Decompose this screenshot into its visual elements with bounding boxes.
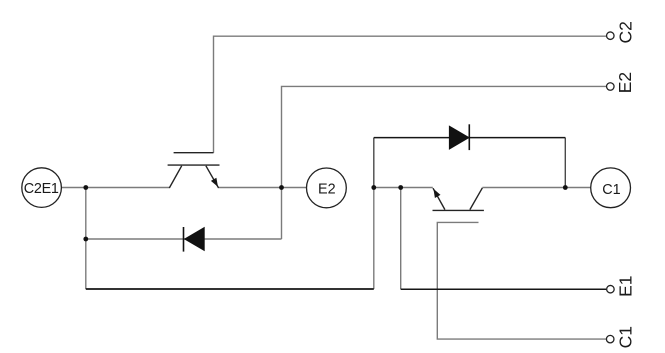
svg-text:C2E1: C2E1 (24, 181, 59, 197)
svg-text:E2: E2 (318, 182, 336, 198)
svg-text:E1: E1 (615, 275, 635, 296)
svg-text:C1: C1 (615, 326, 635, 348)
svg-text:C1: C1 (602, 182, 620, 198)
svg-text:C2: C2 (616, 21, 636, 43)
svg-text:E2: E2 (615, 72, 635, 93)
